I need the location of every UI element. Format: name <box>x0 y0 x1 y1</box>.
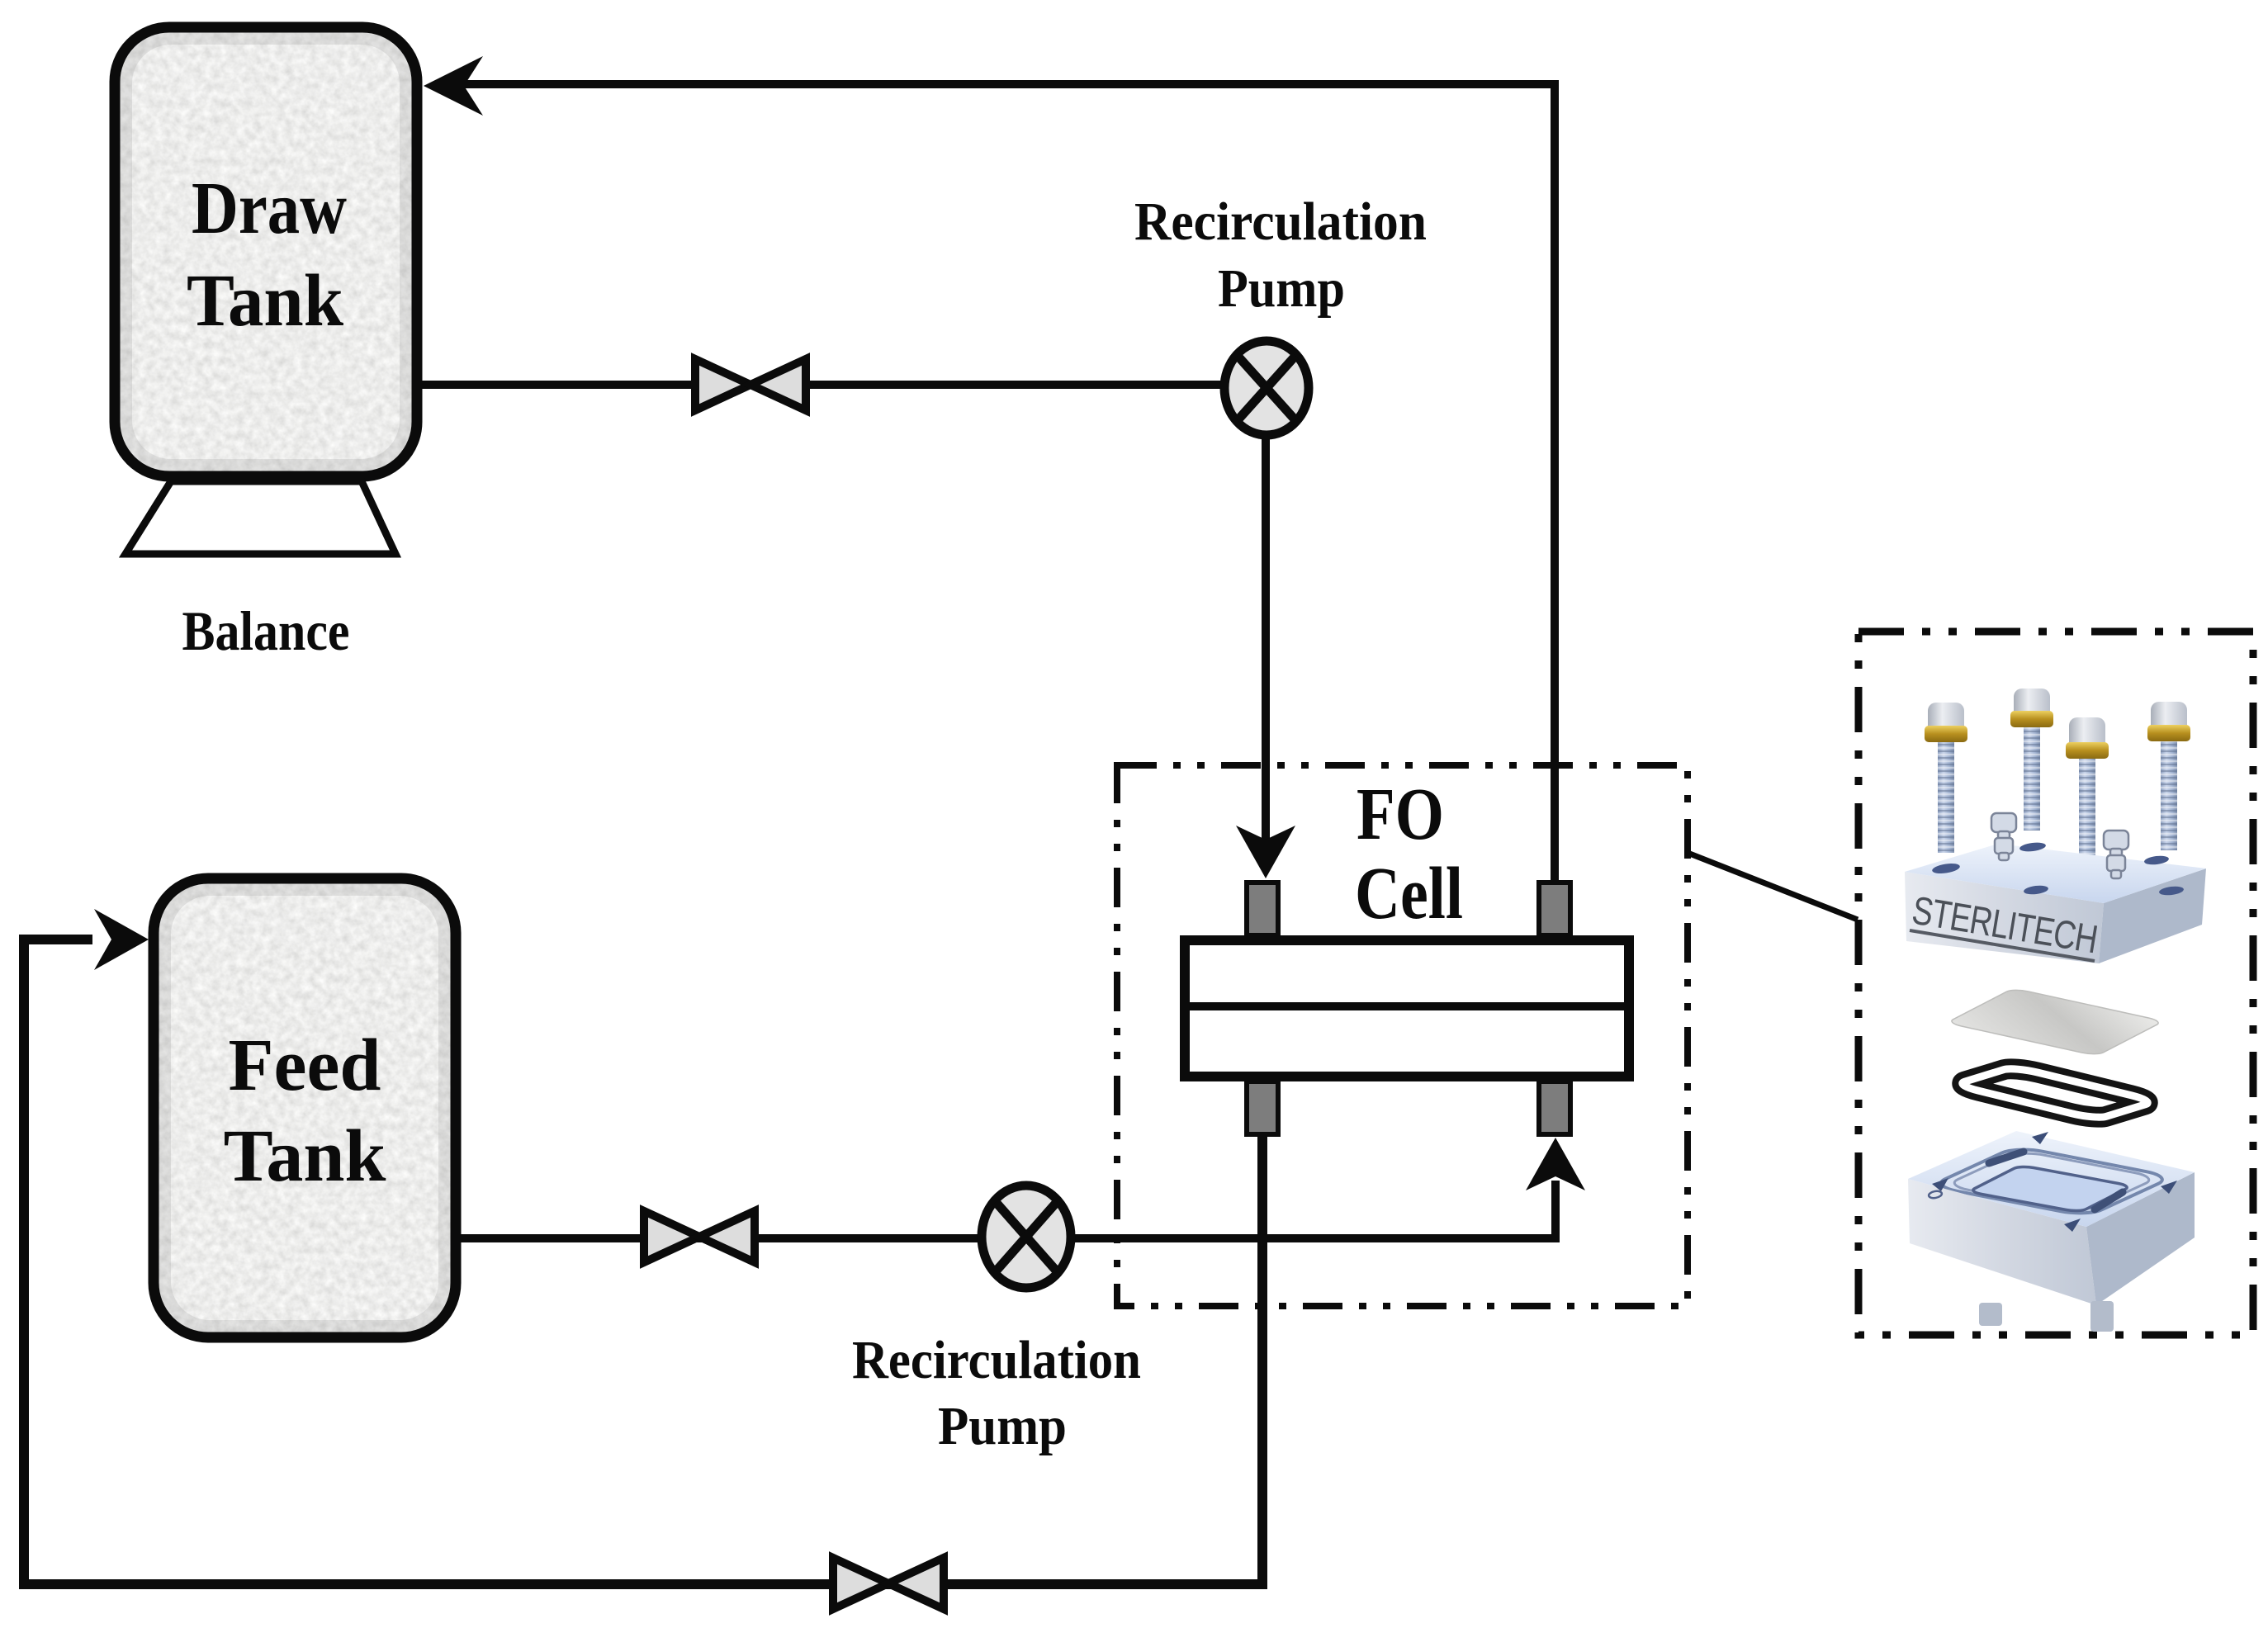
bottom block <box>1908 1131 2195 1332</box>
bolt 1 <box>1925 703 1967 853</box>
svg-text:Balance: Balance <box>182 599 350 662</box>
port fitting 2 <box>2104 831 2128 878</box>
port fitting 1 <box>1991 813 2016 860</box>
arrow into feed tank <box>94 909 149 970</box>
port bottom-right <box>1539 1081 1570 1134</box>
wire: feed tank to pump P2 <box>459 1234 981 1242</box>
wire: pump P2 to FO cell bottom-right port <box>1072 1181 1555 1238</box>
svg-text:Pump: Pump <box>1218 258 1345 319</box>
svg-text:Draw: Draw <box>192 168 347 249</box>
port bottom-left <box>1247 1081 1278 1134</box>
svg-text:Tank: Tank <box>224 1115 386 1197</box>
detail view dashed box <box>1858 632 2253 1335</box>
svg-text:Recirculation: Recirculation <box>1134 192 1427 252</box>
bolt 3 <box>2066 717 2109 875</box>
FO cell dashed boundary <box>1117 765 1688 1306</box>
svg-text:Recirculation: Recirculation <box>852 1330 1141 1390</box>
bolt 4 <box>2147 702 2190 850</box>
wire: draw tank to pump P1 <box>422 381 1222 389</box>
svg-text:Tank: Tank <box>187 260 343 342</box>
balance stand <box>125 481 395 554</box>
leader line to detail view <box>1688 853 1858 920</box>
valve V1 <box>695 359 806 410</box>
port top-right <box>1539 883 1570 935</box>
bolt 2 <box>2010 689 2053 831</box>
wire: FO cell bottom-left port return to feed tank <box>24 939 1262 1584</box>
top block <box>1905 841 2206 963</box>
pump P1 <box>1224 341 1309 435</box>
draw tank <box>115 27 417 476</box>
port top-left <box>1247 883 1278 935</box>
valve V3 <box>833 1558 944 1609</box>
svg-text:Cell: Cell <box>1355 853 1463 935</box>
feed tank <box>154 878 456 1337</box>
svg-text:Feed: Feed <box>229 1025 381 1106</box>
wire: FO cell outlet return to draw tank (top line and right drop) <box>454 84 1555 885</box>
svg-text:Pump: Pump <box>938 1396 1067 1456</box>
wire: pump P1 down to FO cell <box>1262 431 1270 840</box>
membrane cell body <box>1185 940 1629 1077</box>
arrow into FO cell top port <box>1236 826 1295 878</box>
membrane divider <box>1180 1002 1634 1010</box>
membrane sheet <box>1947 988 2164 1056</box>
CF042 cell 3D exploded render <box>1905 689 2206 1332</box>
valve V2 <box>644 1211 755 1262</box>
pump P2 <box>982 1186 1071 1288</box>
arrow into draw tank <box>424 56 483 116</box>
o-ring gasket <box>1954 1067 2156 1119</box>
svg-text:FO: FO <box>1357 774 1444 855</box>
arrow into FO cell bottom-right port <box>1526 1138 1585 1190</box>
